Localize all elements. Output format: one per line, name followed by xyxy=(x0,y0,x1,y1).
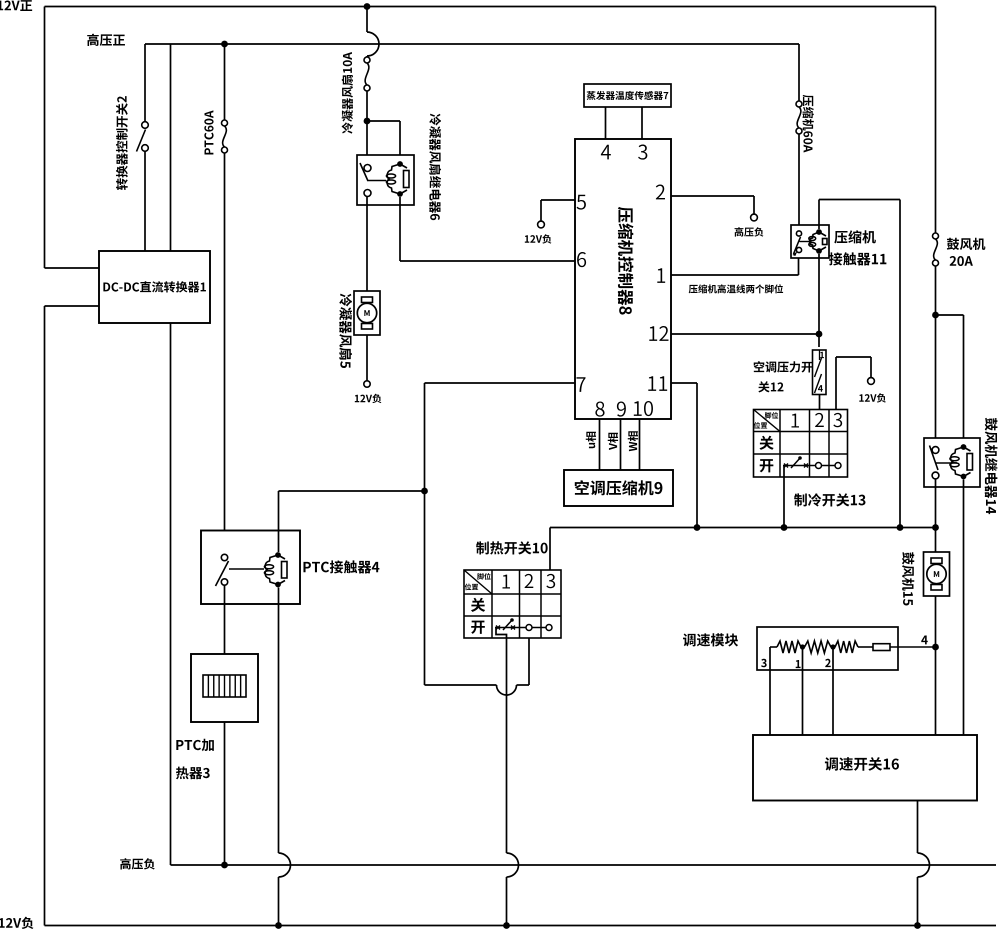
pin 6 xyxy=(577,252,586,267)
wire sensor to pin3 xyxy=(641,107,643,139)
heat switch 10 pin1 contact symbol xyxy=(495,627,516,629)
table cool switch 13 xyxy=(754,410,848,478)
box U8 compressor controller xyxy=(575,139,671,419)
junction 12V+ rail / condenser fan branch xyxy=(364,3,371,10)
wire PTC fuse branch upper xyxy=(224,44,226,120)
wire pin5 to 12V- terminal xyxy=(541,199,575,201)
label compressor contactor 11 line2 xyxy=(829,252,886,265)
contactor K11 compressor contactor xyxy=(791,225,829,258)
heater element hatched xyxy=(203,675,246,697)
pin 5 xyxy=(577,195,586,210)
label module pin 3 xyxy=(761,659,767,667)
label W phase xyxy=(628,431,638,451)
junction blower line / relay14 coil branch xyxy=(932,312,939,319)
label V phase xyxy=(608,433,618,450)
wire hop over HV+ bus xyxy=(367,32,379,56)
pin 10 xyxy=(634,401,653,416)
label AC pressure switch 12 line2 xyxy=(758,381,783,392)
left 12V negative rail wire xyxy=(44,306,46,926)
label 12V negative bottom-left xyxy=(0,917,33,929)
relay K14 blower relay xyxy=(924,438,980,487)
wire fuse to relay6 xyxy=(366,91,368,165)
label module pin 1 xyxy=(796,660,801,668)
label blower relay 14 xyxy=(985,418,998,514)
junction module node 1 xyxy=(800,644,805,649)
heat switch 10 pin2-3 link xyxy=(516,627,546,629)
wire contactor11 coil bottom to pin12 node xyxy=(818,254,820,347)
wire to relay14 coil xyxy=(936,314,964,316)
label blower fuse line2 xyxy=(950,256,973,266)
label U phase xyxy=(586,432,596,448)
label compressor high temp wire two pins xyxy=(689,284,783,293)
junction blower line / speed module pin4 xyxy=(932,644,939,651)
wire condenser fan branch xyxy=(366,7,368,33)
terminal 12V negative of fan motor xyxy=(364,381,370,387)
wire contactor11 coil top run xyxy=(818,200,820,230)
label 12V negative fan xyxy=(355,394,382,403)
wire PTC coil top to pin7 run xyxy=(278,491,280,552)
wire cool switch pin3 to 12V- terminal xyxy=(835,357,837,410)
junction pin7 wire / PTC coil wire xyxy=(421,488,428,495)
wire hop PTC coil over HV- line xyxy=(279,853,291,877)
terminal HV negative pin2 xyxy=(751,214,758,221)
wire pin12 to pressure switch node xyxy=(671,333,819,335)
terminal 12V negative pin5 xyxy=(538,221,545,228)
wire pin11 to control line xyxy=(671,382,697,384)
pressure switch S12 xyxy=(813,350,827,395)
wire relay6 contact to fan motor xyxy=(366,197,368,381)
junction fan wire / relay coil branch xyxy=(364,118,371,125)
cool switch 13 pin1 contact symbol xyxy=(783,465,809,467)
label 12V positive xyxy=(0,0,32,11)
junction control line / pin11 xyxy=(694,524,701,531)
label DC-DC converter 1 xyxy=(103,281,206,292)
control line to blower relay coil xyxy=(550,527,936,529)
cool switch 13 pin2-3 link xyxy=(809,465,835,467)
wire PTC coil bottom down xyxy=(278,588,280,854)
fuse compressor 60A xyxy=(796,101,802,107)
wire DC-DC HV- output down xyxy=(170,323,172,865)
label AC pressure switch 12 line1 xyxy=(754,361,813,372)
wire into DC-DC converter input xyxy=(45,267,100,269)
junction heater-switch drop / 12V- rail xyxy=(503,922,510,929)
wire pin10 W phase xyxy=(639,419,641,470)
label compressor 60A xyxy=(802,95,813,153)
fuse condenser fan 10A xyxy=(364,57,370,63)
motor M15 blower xyxy=(924,552,950,596)
wire HV+ bus to compressor fuse xyxy=(798,44,800,101)
label speed module xyxy=(683,633,738,646)
pin 9 xyxy=(617,402,626,417)
label heat switch 10 xyxy=(476,541,548,554)
wire switch2 to DC-DC xyxy=(144,151,146,251)
wire fuse to contactor11 xyxy=(798,134,800,231)
table heat switch 10 xyxy=(464,570,561,638)
label PTC heater 3 line1 xyxy=(176,739,214,751)
pin 8 xyxy=(595,402,604,417)
wire hop over HV- line at heater switch drop xyxy=(507,853,519,877)
wire PTC contactor contact to heater xyxy=(224,585,226,865)
wire to relay6 coil xyxy=(367,120,400,122)
junction coil / pin12 / pressure switch xyxy=(816,331,823,338)
label compressor controller 8 xyxy=(618,207,634,315)
switch S2 converter control switch xyxy=(142,122,149,129)
pin 2 xyxy=(656,185,665,200)
label condenser fan 10A xyxy=(342,52,353,134)
wire speed switch to 12V- rail xyxy=(917,801,919,854)
resistor R2 of module xyxy=(805,641,832,653)
wire module pin2 drop xyxy=(832,647,834,735)
wire pin8 U phase xyxy=(599,419,601,470)
junction control line / blower line xyxy=(932,524,939,531)
junction HV+ bus / PTC fuse xyxy=(221,41,228,48)
left 12V positive rail wire xyxy=(44,7,46,269)
wire pin2 to HV- terminal xyxy=(671,195,754,197)
fuse blower 20A xyxy=(933,233,939,239)
wire hop over heater-switch drop xyxy=(497,685,517,695)
junction module node 2 xyxy=(830,644,835,649)
wire relay6 coil to controller pin6 xyxy=(399,197,401,261)
label module pin 2 xyxy=(825,659,831,667)
wire blower fuse to relay14 xyxy=(935,267,937,447)
box M9 air-conditioning compressor xyxy=(564,470,673,506)
top 12V positive rail wire xyxy=(45,6,936,8)
right 12V positive rail to blower fuse xyxy=(935,7,937,233)
label condenser fan relay 6 xyxy=(429,114,441,221)
box speed regulation module xyxy=(757,627,898,670)
label 12V negative cool switch xyxy=(859,393,886,402)
wire module pin1 drop xyxy=(802,647,804,735)
wire cool switch pin1 down to control line xyxy=(783,466,785,528)
label air conditioning compressor 9 xyxy=(575,480,663,495)
contactor K4 PTC contactor xyxy=(201,531,300,605)
wire pressure switch to cool switch table xyxy=(819,395,821,410)
label PTC heater 3 line2 xyxy=(176,767,210,780)
label cool switch 13 xyxy=(794,493,865,506)
wire HV+ branch to DC-DC xyxy=(170,44,172,251)
wire hop speed switch over HV- line xyxy=(918,853,930,877)
wire heat switch pin1 exit xyxy=(496,628,507,854)
wire pin9 V phase xyxy=(620,419,622,470)
pin 11 xyxy=(648,376,667,391)
motor M5 condenser fan xyxy=(354,291,380,335)
label converter control switch 2 xyxy=(116,96,128,190)
label blower fuse line1 xyxy=(947,238,985,250)
bottom 12V negative rail wire xyxy=(45,925,997,927)
pin 4 xyxy=(601,145,611,160)
box DC-DC converter 1 xyxy=(99,251,210,323)
high-voltage positive bus wire xyxy=(145,43,799,45)
wire pin7 run to heat switch contacts xyxy=(425,684,497,686)
fuse PTC60A xyxy=(222,120,228,126)
wire relay14 contact down to blower motor xyxy=(935,479,937,735)
label HV negative bus xyxy=(120,858,155,869)
wire up into heat switch table pin2 xyxy=(528,631,530,686)
label PTC contactor 4 xyxy=(303,560,379,573)
label evaporator temperature sensor 7 xyxy=(587,91,669,100)
wire pin7 to heat switch xyxy=(425,382,576,384)
label compressor contactor 11 line1 xyxy=(834,230,876,243)
junction control line / cool switch xyxy=(781,524,788,531)
resistor R3 of module xyxy=(835,641,858,653)
junction PTC heater / HV- line xyxy=(221,862,228,869)
label speed switch 16 xyxy=(825,757,899,771)
wire pin1 to contactor11 xyxy=(671,274,799,276)
relay K6 condenser fan relay xyxy=(357,155,414,205)
wire switch2 branch from HV+ bus xyxy=(144,44,146,122)
label condenser fan 5 xyxy=(339,294,352,368)
wire DC-DC converter lower output to left rail xyxy=(45,305,100,307)
pin 3 xyxy=(638,145,647,160)
label 12V negative pin5 xyxy=(525,234,552,243)
wire control line into heat switch pin3 xyxy=(549,528,551,571)
wire relay14 coil to speed switch xyxy=(963,480,965,736)
HV negative bus wire xyxy=(171,864,997,866)
junction speed switch / 12V- rail xyxy=(914,922,921,929)
pin 7 xyxy=(576,377,585,392)
wire PTC fuse to contactor4 xyxy=(224,153,226,555)
junction control line / contactor coil run xyxy=(897,524,904,531)
wire sensor to pin4 xyxy=(605,107,607,139)
label HV negative pin2 xyxy=(735,227,764,237)
box evaporator temperature sensor 7 xyxy=(584,84,671,107)
junction PTC coil / 12V- rail xyxy=(275,922,282,929)
pin 1 xyxy=(657,268,665,283)
label high-voltage positive xyxy=(87,34,125,46)
label blower 15 xyxy=(902,552,914,605)
box PTC heater 3 xyxy=(191,654,258,722)
pin 12 xyxy=(649,326,668,341)
box speed switch 16 xyxy=(753,735,977,801)
label PTC60A xyxy=(204,110,213,154)
wire module pin3 drop xyxy=(769,647,771,735)
terminal 12V negative cool switch xyxy=(868,378,875,385)
resistor R1 of module xyxy=(770,646,777,648)
resistor R4 block of module xyxy=(858,646,873,648)
label module pin 4 xyxy=(921,636,927,645)
